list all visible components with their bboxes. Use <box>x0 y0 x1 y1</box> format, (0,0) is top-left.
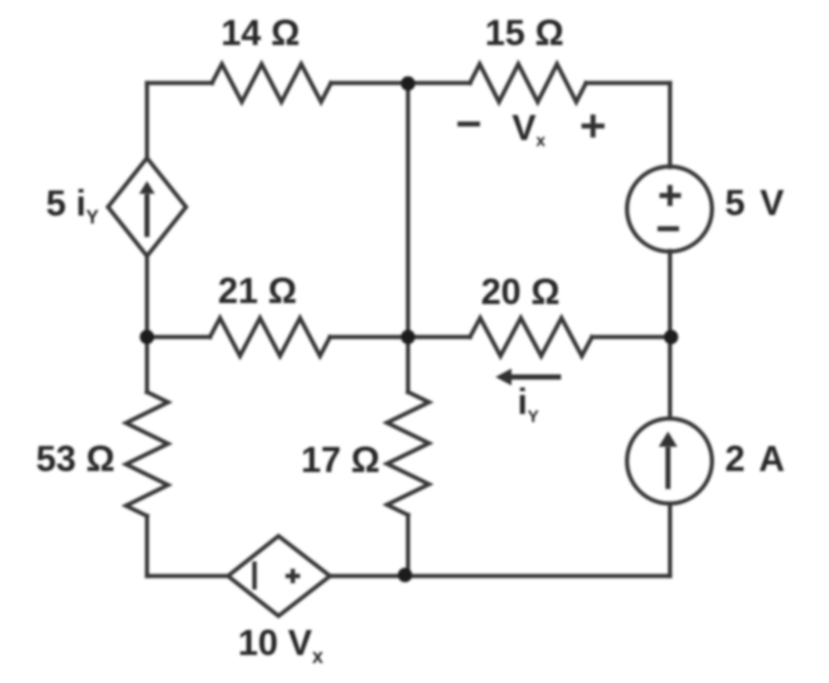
svg-text:20 Ω: 20 Ω <box>481 271 560 312</box>
svg-text:15 Ω: 15 Ω <box>485 12 564 53</box>
svg-text:17 Ω: 17 Ω <box>301 439 380 480</box>
svg-text:14 Ω: 14 Ω <box>221 12 300 53</box>
svg-text:2 A: 2 A <box>725 438 787 479</box>
svg-text:21 Ω: 21 Ω <box>218 270 297 311</box>
svg-text:53 Ω: 53 Ω <box>36 438 115 479</box>
svg-text:5 V: 5 V <box>725 182 787 223</box>
svg-text:10 Vx: 10 Vx <box>238 622 323 668</box>
